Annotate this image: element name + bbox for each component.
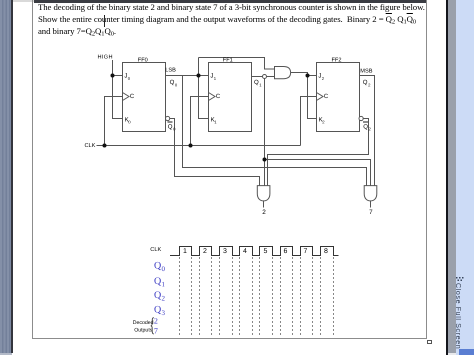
svg-text:0: 0 [173, 127, 176, 132]
svg-text:0: 0 [128, 120, 131, 125]
svg-text:MSB: MSB [360, 68, 372, 74]
svg-text:0: 0 [175, 82, 178, 87]
svg-text:2: 2 [262, 209, 266, 216]
svg-text:1: 1 [162, 280, 166, 288]
svg-text:HIGH: HIGH [98, 54, 113, 60]
svg-text:3: 3 [162, 309, 166, 317]
svg-text:2: 2 [322, 120, 325, 125]
svg-text:C: C [324, 93, 329, 100]
svg-text:6: 6 [284, 248, 288, 255]
svg-text:LSB: LSB [165, 67, 176, 73]
svg-text:Q: Q [170, 79, 175, 86]
svg-text:0: 0 [162, 265, 166, 273]
svg-text:2: 2 [162, 295, 166, 303]
svg-text:Q: Q [363, 79, 368, 86]
svg-text:3: 3 [223, 248, 227, 255]
svg-text:1: 1 [259, 82, 262, 87]
svg-text:4: 4 [243, 248, 247, 255]
svg-text:C: C [216, 93, 221, 100]
svg-text:2: 2 [154, 317, 158, 326]
svg-text:Q: Q [168, 123, 173, 130]
svg-text:2: 2 [203, 248, 207, 255]
svg-text:7: 7 [154, 327, 158, 336]
svg-text:Q: Q [363, 123, 368, 130]
svg-text:FF0: FF0 [138, 58, 148, 64]
svg-text:8: 8 [324, 248, 328, 255]
svg-text:1: 1 [183, 248, 187, 255]
svg-text:Decoded: Decoded [133, 320, 154, 326]
svg-text:2: 2 [322, 76, 325, 81]
svg-text:CLK: CLK [150, 247, 161, 253]
svg-text:5: 5 [264, 248, 268, 255]
svg-text:1: 1 [214, 120, 217, 125]
svg-text:2: 2 [368, 82, 371, 87]
svg-text:7: 7 [304, 248, 308, 255]
svg-text:Q: Q [254, 79, 259, 86]
svg-text:FF1: FF1 [223, 58, 233, 64]
svg-text:CLK: CLK [85, 143, 96, 149]
svg-text:1: 1 [214, 76, 217, 81]
svg-text:Outputs: Outputs [134, 327, 153, 333]
svg-text:7: 7 [369, 209, 373, 216]
svg-text:0: 0 [128, 76, 131, 81]
svg-text:FF2: FF2 [332, 58, 342, 64]
svg-text:2: 2 [369, 127, 372, 132]
svg-text:C: C [130, 93, 135, 100]
